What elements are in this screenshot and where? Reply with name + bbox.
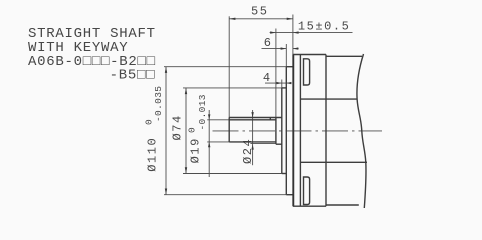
dimension D24 line	[252, 110, 254, 165]
svg-text:Ø74: Ø74	[171, 114, 185, 140]
svg-text:Ø110: Ø110	[146, 137, 160, 172]
lower shoulder line	[300, 161, 367, 163]
flange bottom edge	[293, 205, 326, 207]
dimension D74 ext top	[183, 87, 282, 89]
dimension D74 line	[185, 88, 187, 174]
flange face	[292, 55, 294, 207]
bottom tab	[304, 177, 310, 205]
body bottom edge	[326, 204, 359, 206]
flange top edge	[293, 54, 326, 56]
svg-text:0: 0	[186, 127, 197, 133]
boss bottom edge	[282, 173, 287, 175]
keyway end tick	[269, 118, 271, 120]
dimension 6 line	[262, 48, 287, 50]
dimension D19 ext top	[207, 119, 229, 121]
wire: extension line flange face top (55/15 dims)	[292, 15, 294, 55]
collar bottom edge	[276, 143, 282, 145]
dimension D110 line	[165, 67, 167, 195]
dimension D24 ext bottom	[250, 143, 276, 145]
shaft top line	[229, 119, 276, 121]
centerline	[213, 130, 383, 132]
break line	[357, 54, 366, 208]
svg-text:-B5□□: -B5□□	[110, 68, 156, 84]
svg-text:-0.035: -0.035	[153, 86, 164, 122]
dimension 4 line	[265, 82, 292, 84]
boss face D74	[281, 88, 283, 174]
svg-text:Ø19: Ø19	[188, 137, 202, 163]
shaft bottom line	[229, 141, 276, 143]
body top edge	[326, 55, 362, 57]
wire: extension line collar face (15 dim)	[275, 29, 277, 118]
spigot bottom edge	[286, 194, 293, 196]
svg-text:15±0.5: 15±0.5	[298, 20, 351, 34]
dimension D19 ext bottom	[207, 141, 229, 143]
dimension 15+-0.5 line	[270, 32, 353, 34]
dimension 55 line	[229, 18, 293, 20]
svg-text:-0.013: -0.013	[197, 94, 208, 130]
collar face	[275, 118, 277, 145]
dimension D74 ext bottom	[183, 173, 282, 175]
top tab	[304, 59, 310, 85]
shaft end face	[228, 118, 230, 142]
spigot face D110	[285, 67, 287, 195]
key top line	[229, 117, 282, 119]
dimension D110 ext bottom	[164, 194, 286, 196]
boss top edge	[282, 87, 287, 89]
svg-text:6: 6	[264, 36, 273, 50]
body front line	[325, 55, 327, 207]
dimension D110 ext top	[164, 66, 286, 68]
flange back	[299, 55, 301, 207]
upper shoulder line	[300, 98, 357, 100]
spigot top edge	[286, 66, 293, 68]
svg-text:55: 55	[251, 5, 269, 19]
svg-text:4: 4	[263, 71, 272, 85]
dimension D19 line	[208, 110, 210, 177]
wire: extension line boss face (4 dim)	[281, 80, 283, 88]
wire: extension line shaft end (55 dim)	[228, 16, 230, 117]
wire: extension line spigot corner (6 dim)	[285, 44, 287, 67]
